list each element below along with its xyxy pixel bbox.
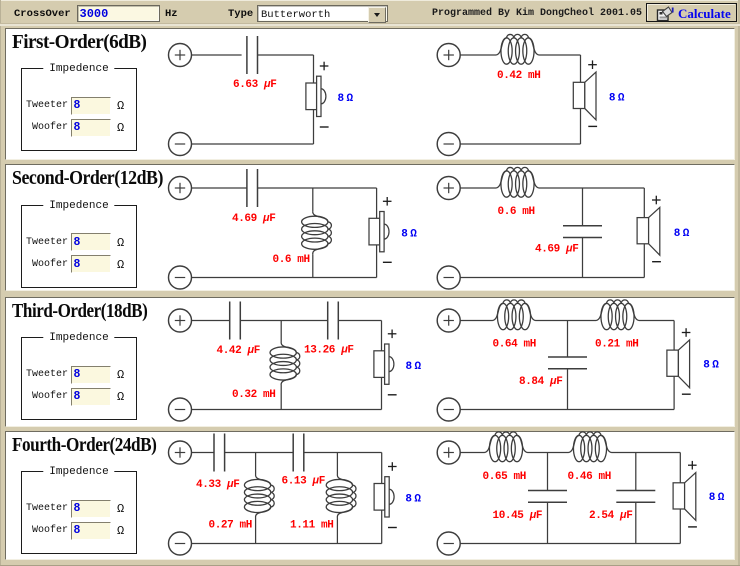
wire IN+ to L1 [460,452,484,454]
load label SP6 8 ohm [703,360,719,372]
wire bottom return [191,277,376,279]
capacitor C1 8.84uF shunt third-order low-pass [548,357,587,369]
capacitor C2 13.26uF third-order high-pass [328,302,339,340]
toolbar separator groove [0,23,740,24]
svg-text:10.45 µF: 10.45 µF [493,510,543,522]
wire IN+ to L1 [460,187,496,189]
speaker SP3 tweeter 8ohm (tweeter symbol) [369,212,389,252]
terminal P5+ third-order high-pass [169,309,192,332]
combobox arrow button [368,7,386,23]
terminal P2+ first-order low-pass [437,44,460,67]
input tweeter impedance [71,233,111,251]
svg-text:8: 8 [338,93,345,105]
speaker SP8 woofer 8ohm minus mark [688,526,697,528]
window top-left highlight [0,0,740,1]
svg-text:4.69 µF: 4.69 µF [232,213,275,225]
terminal P3+ second-order high-pass [169,177,192,200]
speaker SP7 tweeter 8ohm (tweeter symbol) [374,477,394,517]
capacitor C1 4.33uF fourth-order high-pass [214,434,225,472]
svg-text:4.42 µF: 4.42 µF [217,345,260,357]
capacitor C1 4.42uF third-order high-pass [230,302,241,340]
wire tweeter branch down [313,55,315,144]
svg-text:0.42 mH: 0.42 mH [497,70,540,82]
speaker SP8 woofer 8ohm plus mark [688,461,697,470]
inductor L2 0.46mH fourth-order low-pass [569,432,612,462]
svg-text:Ω: Ω [414,494,421,506]
terminal P3- second-order high-pass [169,266,192,289]
wire IN+ to C1 [191,452,214,454]
terminal P1+ first-order high-pass [169,44,192,67]
wire bottom return [191,409,381,411]
inductor L1 0.6mH shunt second-order high-pass [302,211,332,254]
label Programmed By Kim DongCheol 2001.05 [432,8,642,19]
speaker SP1 tweeter 8ohm minus mark [320,126,329,128]
svg-text:2.54 µF: 2.54 µF [589,510,632,522]
wire bottom return [460,143,580,145]
speaker SP7 tweeter 8ohm plus mark [388,462,397,471]
impedance group box [21,471,137,554]
terminal P5- third-order high-pass [169,398,192,421]
svg-text:0.32 mH: 0.32 mH [232,389,275,401]
speaker SP3 tweeter 8ohm plus mark [383,197,392,206]
label CrossOver [14,8,71,20]
input woofer impedance [71,522,111,540]
wire shunt L1 top [280,321,282,343]
wire C1 to C2 [240,320,327,322]
wire bottom return [460,409,674,411]
wire L1 to woofer [539,187,644,189]
input woofer impedance [71,119,111,137]
wire woofer branch down [679,453,681,544]
wire tweeter branch down [381,321,383,410]
combobox filter type Butterworth [257,5,388,22]
speaker SP8 woofer 8ohm (woofer symbol) [673,473,696,521]
svg-text:Ω: Ω [347,93,354,105]
input tweeter impedance [71,366,111,384]
wire shunt L2 top [336,453,338,475]
input woofer impedance [71,255,111,273]
wire shunt C2 bottom [635,502,637,543]
svg-text:0.21 mH: 0.21 mH [595,339,638,351]
speaker SP2 woofer 8ohm minus mark [588,125,597,127]
svg-text:0.6 mH: 0.6 mH [498,206,535,218]
inductor L1 0.64mH third-order low-pass [493,300,536,330]
label Type [228,8,253,20]
calculate button icon [655,4,677,23]
svg-text:8: 8 [709,492,716,504]
speaker SP4 woofer 8ohm plus mark [652,196,661,205]
terminal P7- fourth-order high-pass [169,532,192,555]
wire L2 to woofer [612,452,681,454]
impedance group box [21,337,137,420]
wire IN+ to C1 [191,320,229,322]
wire C1 to tweeter [258,54,314,56]
svg-text:0.6 mH: 0.6 mH [273,254,310,266]
speaker SP6 woofer 8ohm minus mark [682,393,691,395]
wire shunt L1 top [255,453,257,475]
speaker SP2 woofer 8ohm plus mark [588,60,597,69]
wire shunt C2 top [635,453,637,491]
terminal P8+ fourth-order low-pass [437,441,460,464]
wire shunt C1 bottom [567,369,569,410]
wire C1 to tweeter [258,187,377,189]
speaker SP3 tweeter 8ohm minus mark [383,261,392,263]
wire L2 to woofer [639,320,674,322]
svg-text:8: 8 [406,361,413,373]
terminal P4- second-order low-pass [437,266,460,289]
wire IN+ to C1 [191,187,247,189]
svg-text:8: 8 [405,494,412,506]
wire shunt C1 bottom [547,502,549,543]
terminal P2- first-order low-pass [437,133,460,156]
wire shunt C1 top [547,453,549,491]
speaker SP5 tweeter 8ohm plus mark [388,330,397,339]
wire shunt L2 bottom [336,518,338,544]
wire shunt L1 top [312,188,314,211]
svg-text:8: 8 [703,360,710,372]
section title Third-Order(18dB) [12,300,147,323]
section panel Third-Order(18dB) [5,297,735,427]
wire L1 to L2 [536,320,597,322]
svg-text:Ω: Ω [718,492,725,504]
load label SP1 8 ohm [338,93,354,105]
svg-text:0.65 mH: 0.65 mH [483,471,526,483]
wire bottom return [191,543,381,545]
section panel First-Order(6dB) [5,28,735,160]
svg-text:Ω: Ω [410,229,417,241]
speaker SP7 tweeter 8ohm minus mark [388,527,397,529]
capacitor C2 2.54uF shunt fourth-order low-pass [616,491,655,503]
impedance group box [21,205,137,288]
inductor L1 0.32mH shunt third-order high-pass [270,342,300,385]
section panel Fourth-Order(24dB) [5,431,735,560]
inductor L2 0.21mH third-order low-pass [596,300,639,330]
svg-text:6.13 µF: 6.13 µF [282,476,325,488]
wire IN+ to C1 [191,54,241,56]
load label SP5 8 ohm [406,361,422,373]
svg-text:0.64 mH: 0.64 mH [493,339,536,351]
speaker SP1 tweeter 8ohm plus mark [320,62,329,71]
wire bottom return [460,277,644,279]
wire L1 to L2 [528,452,569,454]
load label SP4 8 ohm [674,228,690,240]
section title First-Order(6dB) [12,31,146,54]
capacitor C1 4.69uF shunt second-order low-pass [563,226,602,238]
wire tweeter branch down [381,453,383,544]
svg-text:8: 8 [609,93,616,105]
load label SP8 8 ohm [709,492,725,504]
capacitor C1 4.69uF second-order high-pass [247,169,258,207]
wire C2 to tweeter [304,452,382,454]
inductor L1 0.42mH first-order low-pass [496,34,539,64]
svg-text:0.27 mH: 0.27 mH [209,520,252,532]
svg-text:Ω: Ω [712,360,719,372]
wire woofer branch down [673,321,675,410]
speaker SP5 tweeter 8ohm minus mark [388,394,397,396]
wire IN+ to L1 [460,54,496,56]
svg-text:4.33 µF: 4.33 µF [196,479,239,491]
capacitor C2 6.13uF fourth-order high-pass [293,434,304,472]
capacitor C1 6.63uF first-order high-pass [247,36,258,74]
wire C1 to C2 [225,452,293,454]
window bottom/right shadow [738,0,740,566]
svg-text:Ω: Ω [415,361,422,373]
wire shunt L1 bottom [255,518,257,544]
wire shunt C1 top [567,321,569,358]
inductor L2 1.11mH shunt fourth-order high-pass [326,475,356,518]
load label SP7 8 ohm [405,494,421,506]
wire woofer branch down [643,188,645,278]
svg-text:Ω: Ω [683,228,690,240]
svg-text:Ω: Ω [618,93,625,105]
speaker SP6 woofer 8ohm plus mark [682,328,691,337]
wire L1 to woofer [539,54,581,56]
section title Second-Order(12dB) [12,167,163,190]
inductor L1 0.27mH shunt fourth-order high-pass [244,475,274,518]
terminal P6- third-order low-pass [437,398,460,421]
svg-text:6.63 µF: 6.63 µF [233,79,276,91]
svg-text:8: 8 [674,228,681,240]
speaker SP1 tweeter 8ohm (tweeter symbol) [306,76,326,116]
capacitor C1 10.45uF shunt fourth-order low-pass [528,491,567,503]
wire bottom return [460,543,680,545]
terminal P1- first-order high-pass [169,133,192,156]
input tweeter impedance [71,97,111,115]
wire woofer branch down [580,55,582,144]
speaker SP5 tweeter 8ohm (tweeter symbol) [374,344,394,384]
input crossover frequency 3000 [77,5,160,22]
section title Fourth-Order(24dB) [12,434,156,457]
svg-text:1.11 mH: 1.11 mH [290,520,333,532]
speaker SP4 woofer 8ohm minus mark [652,261,661,263]
wire shunt L1 bottom [312,254,314,277]
svg-text:13.26 µF: 13.26 µF [304,345,354,357]
input tweeter impedance [71,500,111,518]
svg-text:0.46 mH: 0.46 mH [568,471,611,483]
wire C2 to tweeter [338,320,381,322]
svg-text:8.84 µF: 8.84 µF [519,376,562,388]
input woofer impedance [71,388,111,406]
inductor L1 0.6mH second-order low-pass [496,167,539,197]
svg-text:8: 8 [401,229,408,241]
label Hz [165,8,178,20]
section panel Second-Order(12dB) [5,164,735,291]
terminal P7+ fourth-order high-pass [169,441,192,464]
terminal P8- fourth-order low-pass [437,532,460,555]
impedance group box [21,68,137,151]
inductor L1 0.65mH fourth-order low-pass [485,432,528,462]
terminal P6+ third-order low-pass [437,309,460,332]
speaker SP6 woofer 8ohm (woofer symbol) [667,340,690,388]
load label SP3 8 ohm [401,229,417,241]
wire shunt C1 bottom [582,238,584,278]
wire bottom return [191,143,313,145]
speaker SP4 woofer 8ohm (woofer symbol) [637,207,660,255]
load label SP2 8 ohm [609,93,625,105]
wire shunt L1 bottom [280,385,282,410]
wire IN+ to L1 [460,320,492,322]
wire tweeter branch down [376,188,378,278]
svg-text:4.69 µF: 4.69 µF [535,244,578,256]
speaker SP2 woofer 8ohm (woofer symbol) [573,72,596,120]
button Calculate [646,3,737,22]
terminal P4+ second-order low-pass [437,177,460,200]
wire shunt C1 top [582,188,584,226]
